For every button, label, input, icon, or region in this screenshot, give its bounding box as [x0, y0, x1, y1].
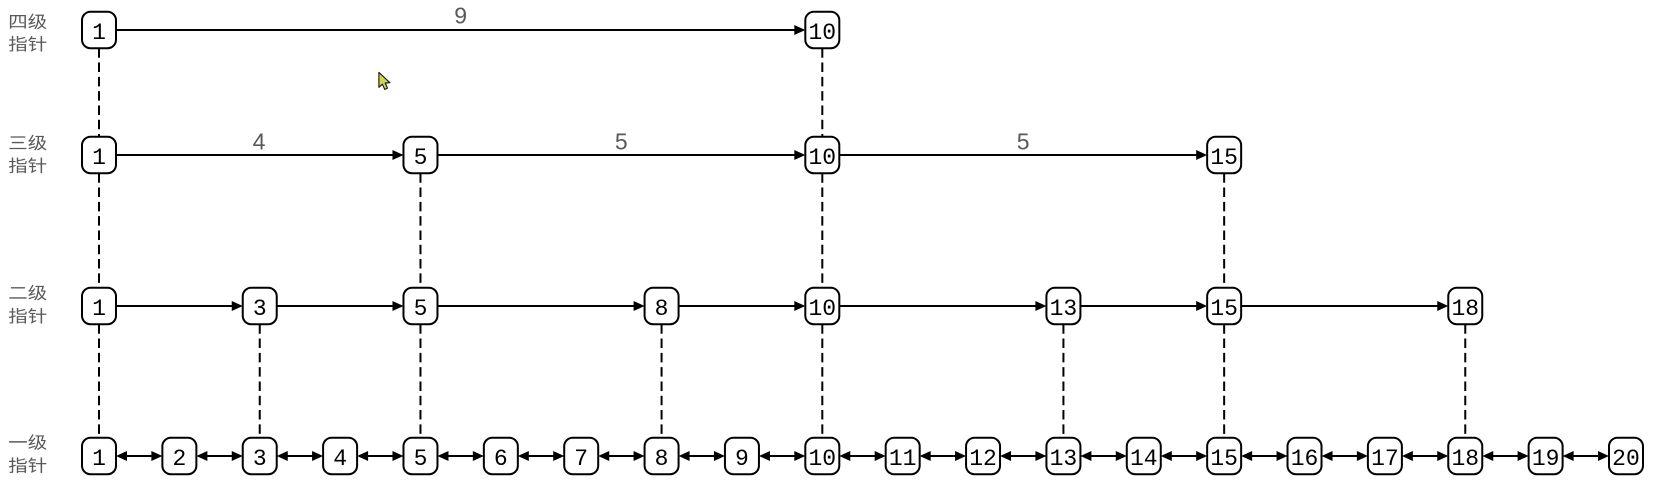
node level 2 value 15	[1207, 288, 1241, 325]
node level 1 value 14	[1127, 438, 1161, 475]
svg-text:4: 4	[333, 446, 347, 472]
node level 1 value 7	[564, 438, 598, 475]
node level 1 value 2	[162, 438, 196, 475]
svg-text:12: 12	[969, 446, 997, 472]
node level 1 value 3	[243, 438, 277, 475]
svg-text:5: 5	[414, 446, 428, 472]
arrow level 2: 1 to 3	[116, 301, 243, 311]
row label level-3 list: 三级指针	[9, 135, 47, 173]
node level 2 value 5	[403, 288, 437, 325]
double arrow level 1: 5 to 6	[437, 451, 483, 461]
node level 1 value 11	[886, 438, 920, 475]
svg-text:11: 11	[889, 446, 917, 472]
double arrow level 1: 15 to 16	[1241, 451, 1287, 461]
svg-text:13: 13	[1050, 446, 1078, 472]
svg-text:1: 1	[92, 296, 106, 322]
svg-text:10: 10	[809, 20, 837, 46]
node level 1 value 12	[966, 438, 1000, 475]
double arrow level 1: 3 to 4	[277, 451, 323, 461]
arrow level 3: 10 to 15	[839, 150, 1207, 160]
node level 1 value 4	[323, 438, 357, 475]
row label level-1 list: 一级指针	[9, 434, 47, 473]
arrow level 3: 5 to 10	[437, 150, 805, 160]
dashed down-link node 15: level 3 to level 2	[1223, 173, 1225, 288]
dashed down-link node 10: level 3 to level 2	[821, 173, 823, 288]
dashed down-link node 1: level 3 to level 2	[98, 173, 100, 288]
double arrow level 1: 2 to 3	[196, 451, 242, 461]
node level 1 value 20	[1609, 438, 1643, 475]
double arrow level 1: 18 to 19	[1482, 451, 1528, 461]
node level 3 value 5	[403, 137, 437, 174]
node level 1 value 17	[1368, 438, 1402, 475]
node level 1 value 6	[484, 438, 518, 475]
mouse cursor	[379, 72, 390, 89]
svg-text:14: 14	[1130, 446, 1158, 472]
node level 1 value 13	[1046, 438, 1080, 475]
row label level-4 list: 四级指针	[9, 14, 47, 52]
svg-text:18: 18	[1451, 296, 1479, 322]
node level 2 value 18	[1448, 288, 1482, 325]
arrow level 2: 10 to 13	[839, 301, 1046, 311]
arrow level 4: 1 to 10	[116, 25, 805, 35]
svg-text:2: 2	[172, 446, 186, 472]
node level 1 value 15	[1207, 438, 1241, 475]
svg-text:5: 5	[615, 129, 628, 155]
svg-text:16: 16	[1291, 446, 1319, 472]
row label level-2 list: 二级指针	[9, 285, 47, 324]
svg-text:8: 8	[655, 446, 669, 472]
svg-text:5: 5	[1017, 129, 1030, 155]
node level 2 value 13	[1046, 288, 1080, 325]
double arrow level 1: 6 to 7	[518, 451, 564, 461]
node level 2 value 10	[805, 288, 839, 325]
node level 4 value 1	[82, 12, 116, 49]
dashed down-link node 18: level 2 to level 1	[1464, 324, 1466, 438]
svg-text:15: 15	[1210, 446, 1238, 472]
double arrow level 1: 14 to 15	[1161, 451, 1207, 461]
node level 1 value 8	[645, 438, 679, 475]
node level 1 value 5	[403, 438, 437, 475]
svg-text:10: 10	[809, 145, 837, 171]
double arrow level 1: 4 to 5	[357, 451, 403, 461]
arrow level 2: 8 to 10	[679, 301, 806, 311]
dashed down-link node 10: level 4 to level 3	[821, 48, 823, 137]
node level 3 value 10	[805, 137, 839, 174]
svg-text:1: 1	[92, 145, 106, 171]
node level 1 value 18	[1448, 438, 1482, 475]
node level 2 value 8	[645, 288, 679, 325]
node level 3 value 1	[82, 137, 116, 174]
dashed down-link node 10: level 2 to level 1	[821, 324, 823, 438]
double arrow level 1: 8 to 9	[679, 451, 725, 461]
node level 1 value 10	[805, 438, 839, 475]
dashed down-link node 3: level 2 to level 1	[259, 324, 261, 438]
svg-text:6: 6	[494, 446, 508, 472]
node level 1 value 16	[1288, 438, 1322, 475]
dashed down-link node 13: level 2 to level 1	[1062, 324, 1064, 438]
svg-text:10: 10	[809, 446, 837, 472]
node level 3 value 15	[1207, 137, 1241, 174]
svg-text:7: 7	[574, 446, 588, 472]
double arrow level 1: 10 to 11	[839, 451, 885, 461]
double arrow level 1: 16 to 17	[1322, 451, 1368, 461]
node level 2 value 3	[243, 288, 277, 325]
svg-text:19: 19	[1532, 446, 1560, 472]
double arrow level 1: 13 to 14	[1080, 451, 1126, 461]
double arrow level 1: 11 to 12	[920, 451, 966, 461]
svg-text:8: 8	[655, 296, 669, 322]
node level 4 value 10	[805, 12, 839, 49]
svg-text:9: 9	[735, 446, 749, 472]
dashed down-link node 5: level 3 to level 2	[419, 173, 421, 288]
double arrow level 1: 1 to 2	[116, 451, 162, 461]
svg-text:4: 4	[253, 129, 266, 155]
node level 1 value 9	[725, 438, 759, 475]
dashed down-link node 5: level 2 to level 1	[419, 324, 421, 438]
svg-text:5: 5	[414, 296, 428, 322]
svg-text:15: 15	[1210, 145, 1238, 171]
dashed down-link node 1: level 2 to level 1	[98, 324, 100, 438]
arrow level 2: 3 to 5	[277, 301, 404, 311]
dashed down-link node 1: level 4 to level 3	[98, 48, 100, 137]
svg-text:18: 18	[1451, 446, 1479, 472]
double arrow level 1: 9 to 10	[759, 451, 805, 461]
svg-text:1: 1	[92, 446, 106, 472]
svg-text:5: 5	[414, 145, 428, 171]
double arrow level 1: 17 to 18	[1402, 451, 1448, 461]
double arrow level 1: 7 to 8	[598, 451, 644, 461]
arrow level 2: 5 to 8	[437, 301, 644, 311]
node level 1 value 1	[82, 438, 116, 475]
svg-text:3: 3	[253, 446, 267, 472]
arrow level 2: 13 to 15	[1080, 301, 1207, 311]
svg-text:3: 3	[253, 296, 267, 322]
svg-text:1: 1	[92, 20, 106, 46]
arrow level 2: 15 to 18	[1241, 301, 1448, 311]
svg-text:17: 17	[1371, 446, 1399, 472]
svg-text:15: 15	[1210, 296, 1238, 322]
svg-text:13: 13	[1050, 296, 1078, 322]
svg-text:20: 20	[1612, 446, 1640, 472]
dashed down-link node 8: level 2 to level 1	[661, 324, 663, 438]
double arrow level 1: 19 to 20	[1563, 451, 1609, 461]
svg-text:9: 9	[454, 3, 467, 29]
double arrow level 1: 12 to 13	[1000, 451, 1046, 461]
arrow level 3: 1 to 5	[116, 150, 403, 160]
node level 1 value 19	[1529, 438, 1563, 475]
svg-text:10: 10	[809, 296, 837, 322]
node level 2 value 1	[82, 288, 116, 325]
dashed down-link node 15: level 2 to level 1	[1223, 324, 1225, 438]
